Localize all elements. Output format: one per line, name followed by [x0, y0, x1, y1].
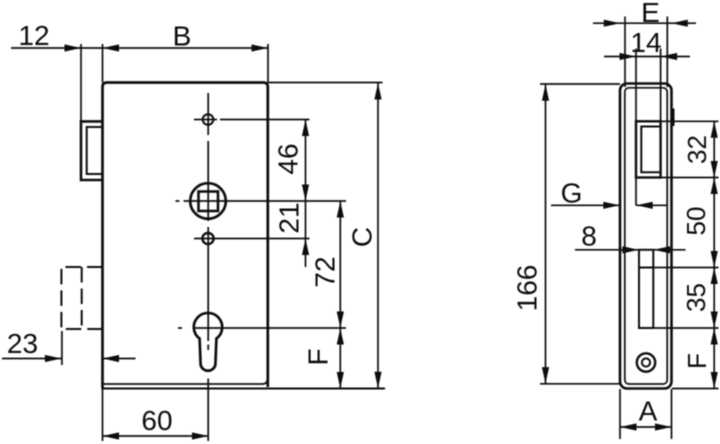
svg-text:35: 35 [681, 283, 711, 312]
arrow 14 right [661, 53, 678, 60]
dimension G [551, 204, 668, 206]
svg-text:F: F [302, 348, 333, 365]
svg-text:A: A [639, 396, 658, 427]
hole upper [203, 114, 214, 125]
arrow F2 down [711, 372, 718, 389]
dimension 14 [604, 56, 690, 58]
svg-text:F: F [682, 353, 712, 369]
euro profile keyhole [194, 313, 222, 371]
case inner bottom line [104, 379, 268, 384]
dimension 166 [545, 84, 547, 384]
svg-text:32: 32 [682, 135, 712, 164]
lock case outline (left view) [107, 83, 268, 388]
arrow E right [671, 20, 688, 27]
centerline spindle [176, 200, 347, 202]
latch window [636, 121, 661, 177]
arrow 35 down [711, 312, 718, 329]
svg-text:23: 23 [7, 328, 38, 359]
arrow F2 up [711, 328, 718, 345]
centerline keyhole [178, 327, 346, 329]
latch tip mark [671, 109, 674, 127]
arrow A right [655, 423, 672, 430]
arrow B right [252, 44, 269, 51]
arrow 72 up [337, 201, 344, 218]
arrow 166 up [542, 84, 549, 101]
dimension line 12 / B [11, 47, 268, 49]
arrow 32 up [711, 121, 718, 138]
lower slot [639, 250, 653, 328]
svg-text:8: 8 [581, 221, 597, 252]
svg-text:72: 72 [309, 256, 340, 287]
dimension 8 [575, 249, 686, 251]
svg-text:60: 60 [141, 405, 172, 436]
arrow 23 right [45, 355, 62, 362]
arrow 166 down [542, 367, 549, 384]
arrow 32 down [711, 161, 718, 178]
hole lower [202, 233, 213, 244]
bolt thrown position (dashed) [61, 267, 102, 329]
spindle hub circle [190, 183, 226, 219]
extension line latch face [80, 44, 82, 121]
arrow C down [374, 372, 381, 389]
arrow F down [337, 372, 344, 389]
arrow 35 up [711, 268, 718, 285]
centerline hole upper [194, 119, 310, 121]
arrow E left [604, 20, 621, 27]
extension line case left [102, 44, 104, 83]
arrow G right [603, 202, 620, 209]
latch inner bracket [87, 127, 103, 174]
svg-text:G: G [561, 178, 583, 209]
arrow B left [103, 44, 120, 51]
faceplate outline (right view) [620, 84, 672, 389]
arrow C up [374, 83, 381, 100]
arrow 12 right [65, 44, 82, 51]
arrow 60 left [103, 432, 120, 439]
arrow F up [337, 328, 344, 345]
right dimension column 32/50/35/F [713, 121, 715, 388]
dimension line 72/F [339, 201, 341, 389]
svg-text:E: E [641, 0, 660, 28]
dashed bolt face line [81, 267, 83, 329]
svg-text:C: C [346, 227, 377, 247]
arrow 23 left [103, 355, 120, 362]
dimension 60 [103, 435, 209, 437]
latch window inner bracket [641, 127, 660, 173]
arrow 8 right [622, 246, 639, 253]
arrow G left [636, 202, 653, 209]
arrow A left [620, 423, 637, 430]
arrow 46/21 down [302, 185, 309, 202]
arrow 46 up [302, 120, 309, 137]
dimension E [593, 22, 696, 24]
svg-text:166: 166 [511, 265, 542, 312]
slot feature line [640, 267, 653, 269]
arrow 14 left [620, 53, 637, 60]
vertical centerline [207, 93, 209, 441]
dimension 23 [2, 358, 136, 360]
arrow 72 down [337, 312, 344, 329]
svg-text:B: B [173, 21, 192, 52]
case body edge lines [636, 49, 661, 206]
arrow 50 up [711, 178, 718, 195]
extension lines right column [653, 121, 718, 388]
dimension line C [377, 83, 379, 389]
arrow 8 left [654, 246, 671, 253]
screw hole outer [637, 353, 655, 371]
latch bolt (retracted, solid) [81, 121, 103, 180]
svg-text:12: 12 [18, 20, 49, 51]
arrow 21 up [302, 239, 309, 256]
arrow 50 down [711, 251, 718, 268]
spindle square hole [199, 192, 219, 212]
dimension line 46/21 [305, 120, 307, 268]
extension line case right [267, 44, 269, 83]
arrow 60 right [192, 432, 209, 439]
screw hole inner [642, 358, 650, 366]
centerline hole lower [194, 238, 310, 240]
svg-text:21: 21 [273, 202, 304, 233]
faceplate inner line [625, 88, 667, 384]
dimension A [620, 426, 672, 428]
case bottom edge / extension line [102, 388, 386, 390]
svg-text:46: 46 [272, 143, 303, 174]
svg-text:50: 50 [681, 207, 711, 236]
svg-text:14: 14 [630, 27, 661, 58]
top extension line C [268, 82, 383, 84]
